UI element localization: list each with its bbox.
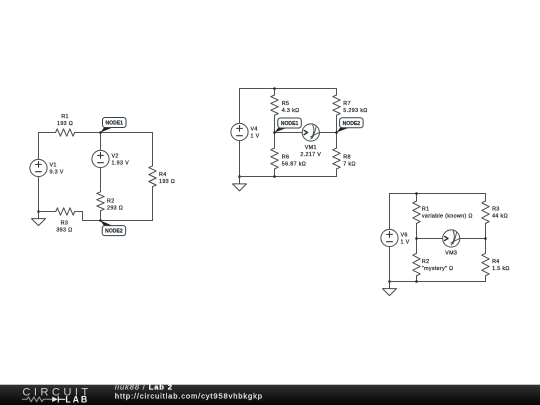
svg-text:293 Ω: 293 Ω <box>107 205 123 211</box>
ground symbol right circuit <box>383 282 397 296</box>
svg-text:R1: R1 <box>422 206 430 212</box>
junction dot right middle right <box>484 237 487 240</box>
svg-text:R8: R8 <box>343 154 351 160</box>
junction dot V4 ground node <box>238 175 241 178</box>
svg-text:VM1: VM1 <box>305 145 317 151</box>
svg-text:193 Ω: 193 Ω <box>159 179 175 185</box>
voltage source V4 1 V <box>231 123 260 140</box>
svg-text:44 kΩ: 44 kΩ <box>492 213 508 219</box>
resistor R2 mystery <box>413 253 454 275</box>
svg-text:http://circuitlab.com/cyt958vh: http://circuitlab.com/cyt958vhbkgkp <box>115 392 263 401</box>
wire: V2 bottom to R2 <box>100 168 102 192</box>
CircuitLab logo wordmark <box>22 386 91 398</box>
wire: right middle horizontal through voltmeter VM3 <box>417 238 486 240</box>
resistor R1 variable known <box>413 201 473 224</box>
footer title liuk88 / Lab 2 <box>115 383 173 392</box>
ground symbol left circuit <box>32 212 46 226</box>
junction dot right bottom node <box>415 280 418 283</box>
wire: R3 R4 branch rail <box>485 194 487 282</box>
voltage source V2 1.93 V <box>92 150 129 167</box>
svg-text:“mystery” Ω: “mystery” Ω <box>422 266 454 272</box>
svg-text:V6: V6 <box>401 233 408 239</box>
resistor R7 5.293 kOhm <box>333 95 368 115</box>
junction dot middle bottom node <box>273 175 276 178</box>
wire: V1 bottom to ground junction <box>38 177 40 212</box>
svg-text:NODE1: NODE1 <box>281 121 299 127</box>
voltage source V1 9.3 V <box>30 159 64 176</box>
svg-text:variable (known) Ω: variable (known) Ω <box>422 213 473 219</box>
wire: R1 R2 branch rail <box>416 194 418 282</box>
svg-text:NODE1: NODE1 <box>105 121 123 127</box>
svg-text:1 V: 1 V <box>401 240 410 246</box>
junction dot middle NODE2 <box>335 131 338 134</box>
svg-text:V2: V2 <box>112 154 119 160</box>
node tag NODE2 left circuit <box>101 221 126 236</box>
junction dot left NODE2 <box>99 219 102 222</box>
svg-text:1.5 kΩ: 1.5 kΩ <box>492 266 510 272</box>
wire: middle rail NODE1 to V2 <box>100 133 102 151</box>
svg-text:R2: R2 <box>422 259 430 265</box>
wire: middle circuit top horizontal <box>240 88 337 90</box>
wire: left circuit top horizontal <box>39 132 153 134</box>
svg-text:1 V: 1 V <box>251 134 260 140</box>
wire: middle circuit bottom horizontal <box>240 176 337 178</box>
svg-text:2.217 V: 2.217 V <box>300 152 321 158</box>
wire: left circuit bottom horizontal <box>101 220 153 222</box>
wire: R3 left lead <box>39 211 56 213</box>
wire: middle circuit left rail <box>239 89 241 177</box>
node tag NODE2 middle circuit <box>337 118 364 133</box>
svg-text:R4: R4 <box>159 172 167 178</box>
junction dot right top node <box>415 192 418 195</box>
resistor R6 56.87 kOhm <box>271 148 306 169</box>
resistor R3 44 kOhm <box>482 201 508 224</box>
svg-text:5.293 kΩ: 5.293 kΩ <box>343 108 367 114</box>
svg-text:V4: V4 <box>251 127 258 133</box>
svg-text:R7: R7 <box>343 101 351 107</box>
svg-text:V1: V1 <box>50 163 57 169</box>
ground symbol middle circuit <box>233 177 247 191</box>
svg-text:9.3 V: 9.3 V <box>50 170 64 176</box>
svg-text:LAB: LAB <box>65 395 89 405</box>
logo resistor squiggle and diode <box>22 397 65 402</box>
svg-text:R5: R5 <box>282 101 290 107</box>
resistor R2 293 Ohm <box>97 192 123 212</box>
wire: middle horizontal through voltmeter VM1 <box>275 132 337 134</box>
voltage source V6 1 V <box>381 229 410 246</box>
junction dot V1 ground node <box>37 210 40 213</box>
svg-text:liuk88 / Lab 2: liuk88 / Lab 2 <box>115 383 173 392</box>
wire: left circuit left rail <box>38 133 40 160</box>
svg-text:R3: R3 <box>492 206 500 212</box>
svg-text:1.93 V: 1.93 V <box>112 161 130 167</box>
junction dot V6 ground node <box>388 280 391 283</box>
svg-text:R3: R3 <box>61 220 69 226</box>
svg-text:VM3: VM3 <box>445 250 457 256</box>
resistor R8 7 kOhm <box>333 148 356 169</box>
svg-text:393 Ω: 393 Ω <box>56 227 72 233</box>
voltmeter VM3 <box>443 230 460 256</box>
logo LAB text <box>65 395 89 405</box>
resistor R1 193 Ohm <box>56 114 75 136</box>
junction dot right middle left <box>415 237 418 240</box>
wire: R2 bottom to NODE2 junction <box>100 211 102 221</box>
resistor R5 4.3 kOhm <box>271 95 300 115</box>
wire: right circuit left rail <box>389 194 391 282</box>
resistor R4 193 Ohm <box>149 166 175 187</box>
svg-text:R4: R4 <box>492 259 500 265</box>
wire: R3 right lead step down to NODE2 rail <box>75 212 101 221</box>
node tag NODE1 middle circuit <box>275 118 302 133</box>
voltmeter VM1 2.217 V <box>300 124 321 158</box>
svg-text:7 kΩ: 7 kΩ <box>343 161 356 167</box>
junction dot middle NODE1 <box>273 131 276 134</box>
resistor R3 393 Ohm <box>56 208 75 234</box>
footer bar <box>0 385 540 405</box>
svg-text:NODE2: NODE2 <box>343 121 361 127</box>
svg-text:R1: R1 <box>61 114 69 120</box>
wire: R7 R8 branch rail <box>336 89 338 177</box>
svg-text:193 Ω: 193 Ω <box>57 121 73 127</box>
svg-text:R2: R2 <box>107 198 115 204</box>
footer url <box>115 392 263 401</box>
wire: left circuit right rail <box>152 133 154 221</box>
svg-text:R6: R6 <box>282 154 290 160</box>
svg-text:56.87 kΩ: 56.87 kΩ <box>282 161 306 167</box>
junction dot middle top node <box>273 87 276 90</box>
junction dot left NODE1 <box>99 131 102 134</box>
svg-text:NODE2: NODE2 <box>105 229 123 235</box>
wire: R5 R6 branch rail <box>274 89 276 177</box>
node tag NODE1 left circuit <box>101 118 127 133</box>
resistor R4 1.5 kOhm <box>482 253 510 275</box>
wire: right circuit top horizontal <box>390 193 486 195</box>
wire: right circuit bottom horizontal <box>390 281 486 283</box>
svg-text:4.3 kΩ: 4.3 kΩ <box>282 108 300 114</box>
